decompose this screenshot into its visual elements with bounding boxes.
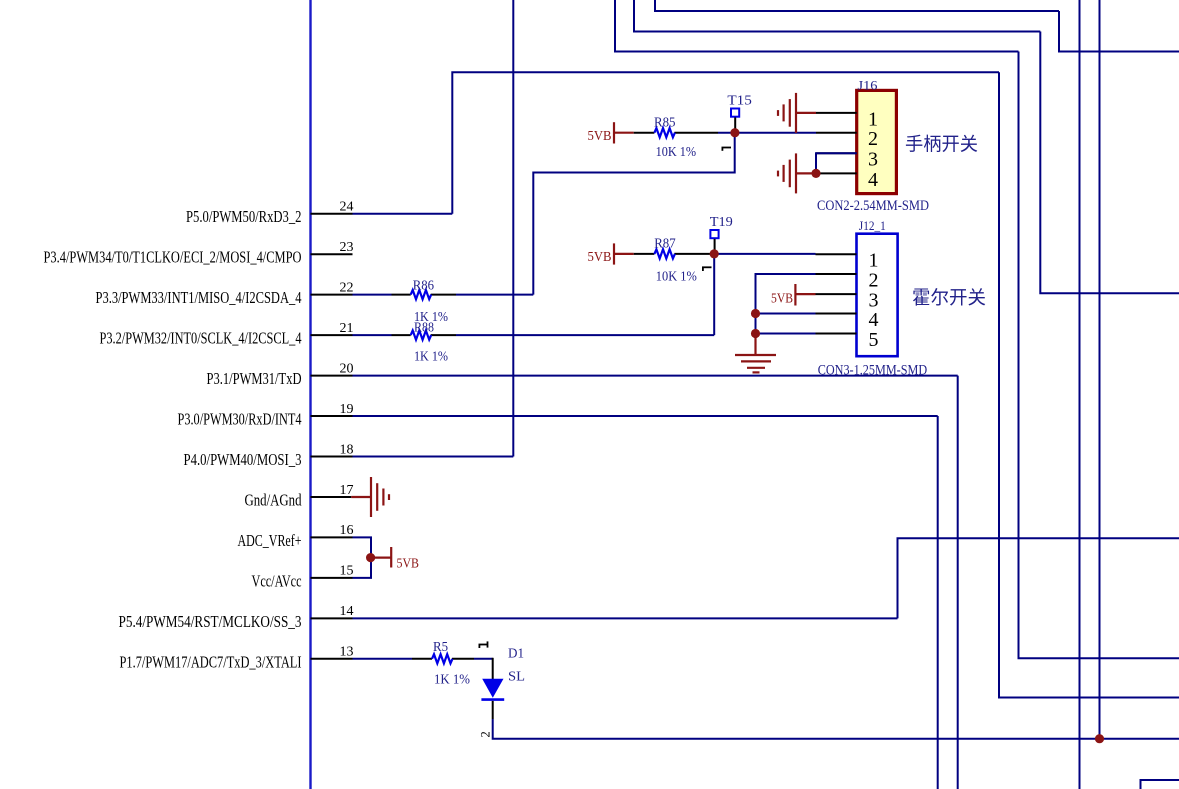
svg-text:22: 22 bbox=[340, 280, 354, 295]
pin 17 stub bbox=[311, 496, 352, 498]
resistor R88 body bbox=[411, 331, 431, 340]
power 5VB bar (R85) bbox=[613, 122, 615, 143]
ground pin17 lead bbox=[351, 496, 371, 498]
svg-text:1K 1%: 1K 1% bbox=[414, 349, 448, 364]
wire J12 pin2 elbow down bbox=[756, 274, 816, 334]
svg-text:2: 2 bbox=[479, 731, 493, 737]
ground J16 pin1 (left-pointing earth) bbox=[778, 93, 796, 133]
svg-text:R5: R5 bbox=[433, 640, 448, 655]
pin 22 stub bbox=[311, 294, 353, 296]
svg-text:霍尔开关: 霍尔开关 bbox=[912, 288, 986, 309]
wire J12 pin5 link bbox=[756, 333, 816, 335]
wire bottom-right corner stub bbox=[1141, 780, 1179, 789]
pin 16 stub bbox=[311, 536, 353, 538]
resistor R86 body bbox=[411, 290, 431, 299]
svg-text:J16: J16 bbox=[858, 78, 878, 92]
resistor R86 leads bbox=[392, 294, 457, 296]
junction pins 15/16 bbox=[366, 553, 375, 562]
svg-text:1: 1 bbox=[868, 108, 878, 130]
wire pin14 net up-over bbox=[898, 538, 1179, 618]
wire net3 top L bbox=[615, 0, 1019, 52]
J16 pin 4 stub bbox=[816, 172, 857, 174]
svg-text:P3.4/PWM34/T0/T1CLKO/ECI_2/MOS: P3.4/PWM34/T0/T1CLKO/ECI_2/MOSI_4/CMPO bbox=[44, 248, 302, 267]
power 5VB lead (R87) bbox=[614, 253, 634, 255]
svg-text:5: 5 bbox=[869, 329, 879, 351]
power 5VB lead (R85) bbox=[614, 132, 634, 134]
J16 pin 3 stub bbox=[816, 152, 857, 154]
svg-text:17: 17 bbox=[340, 483, 354, 498]
J16 pin 2 stub bbox=[816, 132, 857, 134]
junction T15 net bbox=[730, 128, 739, 137]
power 5VB lead (J12 pin3) bbox=[795, 293, 815, 295]
svg-text:T15: T15 bbox=[727, 93, 752, 108]
pin 14 stub bbox=[311, 617, 353, 619]
svg-text:4: 4 bbox=[868, 169, 878, 191]
pin 24 stub bbox=[311, 213, 353, 215]
svg-text:P3.1/PWM31/TxD: P3.1/PWM31/TxD bbox=[207, 369, 302, 388]
pin 15 stub bbox=[311, 577, 353, 579]
wire pin24 net right drop bbox=[999, 72, 1179, 697]
resistor R85 leads bbox=[634, 132, 718, 134]
test point T15 stub bbox=[734, 117, 736, 129]
J16 pin 1 stub bbox=[816, 112, 857, 114]
svg-text:CON3-1.25MM-SMD: CON3-1.25MM-SMD bbox=[818, 362, 928, 378]
ground J16 pin1 lead bbox=[796, 112, 816, 114]
svg-text:Gnd/AGnd: Gnd/AGnd bbox=[245, 491, 303, 510]
wire pin24 to corner bbox=[353, 213, 453, 215]
svg-text:13: 13 bbox=[340, 645, 354, 660]
wire pin22 to R86 bbox=[353, 294, 392, 296]
power 5VB bar (R87) bbox=[613, 243, 615, 264]
resistor R87 body bbox=[654, 249, 674, 258]
svg-text:1: 1 bbox=[869, 250, 879, 272]
connector J16 body bbox=[857, 90, 897, 193]
wire net3 right drop bbox=[1019, 52, 1179, 659]
svg-text:手柄开关: 手柄开关 bbox=[905, 135, 978, 156]
ground J12 stem bbox=[754, 334, 756, 356]
wire pin13 to R5 bbox=[353, 658, 413, 660]
wire pin21 to R88 bbox=[353, 334, 392, 336]
wire net2 top L bbox=[634, 0, 1040, 32]
wire pin19 net drop bbox=[937, 416, 939, 789]
junction J12 pin4 bbox=[751, 309, 760, 318]
resistor R87 leads bbox=[634, 253, 710, 255]
svg-text:2: 2 bbox=[868, 128, 878, 150]
svg-text:P5.0/PWM50/RxD3_2: P5.0/PWM50/RxD3_2 bbox=[186, 207, 302, 226]
power 5VB bar (J12 pin3) bbox=[794, 284, 796, 306]
svg-text:Vcc/AVcc: Vcc/AVcc bbox=[252, 571, 302, 590]
svg-text:CON2-2.54MM-SMD: CON2-2.54MM-SMD bbox=[817, 198, 929, 214]
svg-text:ADC_VRef+: ADC_VRef+ bbox=[238, 531, 302, 550]
power 5VB bar (pins 15/16) bbox=[390, 547, 392, 568]
pin 21 stub bbox=[311, 334, 353, 336]
pin 19 stub bbox=[311, 415, 353, 417]
wire pin24 net loop bbox=[452, 72, 999, 213]
svg-text:5VB: 5VB bbox=[397, 557, 420, 572]
wire long vertical A bbox=[1079, 0, 1081, 789]
test point T19 stub bbox=[714, 239, 716, 250]
svg-text:21: 21 bbox=[340, 321, 354, 336]
svg-text:R85: R85 bbox=[654, 115, 676, 130]
wire net1 right drop to edge bbox=[1059, 11, 1179, 52]
pin 20 stub bbox=[311, 375, 353, 377]
resistor R5 body bbox=[432, 654, 452, 663]
svg-text:15: 15 bbox=[340, 564, 354, 579]
svg-text:D1: D1 bbox=[508, 647, 524, 662]
svg-text:2: 2 bbox=[869, 270, 879, 292]
junction T19 net bbox=[710, 249, 719, 258]
junction J12 pin5 bbox=[751, 329, 760, 338]
svg-text:16: 16 bbox=[340, 523, 354, 538]
wire pin19 net horizontal bbox=[353, 415, 938, 417]
pin number 1 (T15, rotated) bbox=[722, 148, 732, 151]
resistor R85 body bbox=[654, 128, 674, 137]
svg-text:5VB: 5VB bbox=[771, 292, 793, 307]
svg-text:SL: SL bbox=[508, 670, 525, 685]
svg-text:10K 1%: 10K 1% bbox=[656, 145, 697, 160]
J12 pin 5 stub bbox=[816, 333, 857, 335]
resistor R88 leads bbox=[392, 334, 457, 336]
connector J12_1 body bbox=[857, 234, 898, 357]
test point T19 square bbox=[710, 230, 718, 238]
wire long vertical B bbox=[1099, 0, 1101, 739]
J12 pin 2 stub bbox=[816, 273, 857, 275]
wire D1 pin2 to bottom net bbox=[493, 719, 1179, 739]
pin 23 stub bbox=[311, 253, 353, 255]
svg-text:24: 24 bbox=[340, 200, 354, 215]
svg-text:10K 1%: 10K 1% bbox=[656, 269, 697, 284]
junction D1 net right bbox=[1095, 734, 1104, 743]
IC body edge U1 bbox=[309, 0, 311, 789]
wire pin16/pin15 bracket bbox=[353, 537, 372, 578]
svg-text:19: 19 bbox=[340, 402, 354, 417]
svg-text:P4.0/PWM40/MOSI_3: P4.0/PWM40/MOSI_3 bbox=[184, 450, 302, 469]
wire J16 pin3 down to pin4 junction bbox=[816, 153, 857, 173]
svg-text:R86: R86 bbox=[413, 278, 434, 293]
svg-text:J12_1: J12_1 bbox=[859, 219, 886, 233]
pin number 1 (T19, rotated) bbox=[702, 267, 712, 271]
junction J16 pin4 bbox=[811, 169, 820, 178]
wire R85 to junction to J16 pin2 bbox=[718, 132, 816, 134]
svg-text:P3.2/PWM32/INT0/SCLK_4/I2CSCL_: P3.2/PWM32/INT0/SCLK_4/I2CSCL_4 bbox=[100, 329, 302, 348]
wire pin20 net drop bbox=[957, 376, 959, 789]
wire pin18 net horizontal bbox=[353, 456, 514, 458]
diode D1 cathode bar bbox=[481, 698, 504, 701]
wire net2 right drop bbox=[1040, 32, 1179, 294]
J12 pin 1 stub bbox=[816, 253, 857, 255]
diode D1 pin1 stub bbox=[492, 658, 494, 679]
svg-text:P1.7/PWM17/ADC7/TxD_3/XTALI: P1.7/PWM17/ADC7/TxD_3/XTALI bbox=[120, 652, 302, 671]
wire J12 pin4 link bbox=[756, 313, 816, 315]
wire pin14 net horizontal bbox=[353, 617, 898, 619]
ground pin17 (right-pointing earth) bbox=[371, 477, 389, 517]
wire pin18 net vertical from top bbox=[512, 0, 514, 457]
svg-text:P3.0/PWM30/RxD/INT4: P3.0/PWM30/RxD/INT4 bbox=[178, 410, 302, 429]
wire net1 top-left L bbox=[655, 0, 1059, 11]
wire T19 net drop bbox=[713, 254, 715, 335]
pin 13 stub bbox=[311, 658, 353, 660]
svg-text:T19: T19 bbox=[710, 215, 733, 230]
power 5VB lead (pins 15/16) bbox=[371, 556, 392, 558]
wire pin20 net horizontal bbox=[353, 375, 958, 377]
ground J16 pin4 lead bbox=[796, 172, 816, 174]
svg-text:23: 23 bbox=[340, 240, 354, 255]
wire R87 to junction to J12 pin1 bbox=[710, 253, 816, 255]
wire T15 net elbow bbox=[533, 133, 734, 295]
svg-text:4: 4 bbox=[869, 309, 879, 331]
svg-text:5VB: 5VB bbox=[588, 250, 612, 265]
resistor R5 leads bbox=[412, 658, 474, 660]
diode D1 pin2 stub bbox=[492, 701, 494, 719]
wire R5 to D1 corner bbox=[474, 658, 493, 660]
wire R86 to T15 net corner bbox=[456, 294, 533, 296]
test point T15 square bbox=[731, 109, 739, 117]
svg-text:P5.4/PWM54/RST/MCLKO/SS_3: P5.4/PWM54/RST/MCLKO/SS_3 bbox=[119, 612, 302, 631]
pin number 1 (D1, rotated) bbox=[479, 641, 488, 648]
svg-text:20: 20 bbox=[340, 361, 354, 376]
svg-text:R87: R87 bbox=[654, 237, 676, 252]
svg-text:5VB: 5VB bbox=[588, 129, 612, 144]
pin 18 stub bbox=[311, 456, 353, 458]
svg-text:1K 1%: 1K 1% bbox=[434, 673, 470, 688]
svg-text:18: 18 bbox=[340, 442, 354, 457]
J12 pin 4 stub bbox=[816, 313, 857, 315]
ground J16 pin4 (left-pointing earth) bbox=[778, 153, 796, 193]
ground J12 (earth) bbox=[735, 355, 776, 372]
svg-text:P3.3/PWM33/INT1/MISO_4/I2CSDA_: P3.3/PWM33/INT1/MISO_4/I2CSDA_4 bbox=[96, 288, 302, 307]
svg-text:3: 3 bbox=[868, 149, 878, 171]
svg-text:14: 14 bbox=[340, 604, 354, 619]
wire R88 to T19 net bbox=[456, 334, 714, 336]
J12 pin 3 stub bbox=[816, 293, 857, 295]
svg-text:R88: R88 bbox=[414, 320, 434, 335]
diode D1 body bbox=[482, 679, 503, 698]
